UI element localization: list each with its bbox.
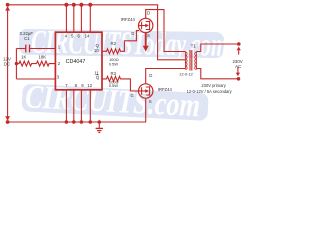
- pin Qbar overline: [96, 74, 98, 76]
- wire pin9 bottom: [80, 90, 82, 122]
- wire pin3: [16, 78, 55, 80]
- wire secondary bottom to terminal: [196, 69, 238, 79]
- svg-text:0.5W: 0.5W: [109, 83, 119, 88]
- node pin6 dot: [79, 3, 83, 7]
- node pin5 dot: [72, 3, 76, 7]
- node pin4 dot: [64, 3, 68, 7]
- node pin14 dot: [88, 3, 92, 7]
- svg-text:IRFZ44: IRFZ44: [121, 17, 136, 22]
- svg-text:3: 3: [57, 75, 60, 80]
- svg-text:230V primary: 230V primary: [201, 83, 226, 88]
- svg-text:18K: 18K: [38, 54, 46, 59]
- svg-text:T1: T1: [191, 44, 197, 49]
- ground symbol bars: [96, 127, 103, 129]
- watermark band bottom: [21, 79, 209, 125]
- svg-text:10: 10: [94, 48, 99, 53]
- wire pin8 bottom: [73, 90, 75, 122]
- svg-text:D: D: [147, 11, 150, 16]
- svg-text:0.22μF: 0.22μF: [20, 31, 34, 36]
- transistor Q2 IRFZ44 bottom circle: [139, 84, 153, 98]
- op chip CD4047 U1 body: [55, 32, 102, 90]
- svg-text:C1: C1: [24, 36, 30, 41]
- wire RC junction vertical: [15, 49, 17, 80]
- watermark band top: [19, 24, 229, 64]
- svg-text:12: 12: [87, 83, 92, 88]
- transistor Q2 drain wire to transformer bottom: [146, 69, 186, 84]
- svg-text:S: S: [147, 33, 150, 38]
- transistor Q1 drain wire to transformer top: [146, 10, 186, 52]
- capacitor C1 left wire: [16, 48, 25, 50]
- transformer T1 right winding: [195, 52, 197, 70]
- node 12V top dot: [6, 3, 10, 7]
- svg-text:Q: Q: [96, 75, 100, 80]
- svg-text:S: S: [149, 99, 152, 104]
- transistor Q1 source stub: [145, 33, 147, 47]
- arrow AC up: [238, 49, 240, 55]
- node AC bottom terminal dot: [237, 77, 241, 81]
- node pin12 rail dot: [89, 120, 93, 124]
- svg-text:DC: DC: [4, 61, 10, 66]
- node pin8 rail dot: [72, 120, 76, 124]
- svg-text:12-0-12V / 5A secondary: 12-0-12V / 5A secondary: [187, 89, 233, 94]
- svg-text:1K: 1K: [21, 54, 26, 59]
- resistor R2 wire and zigzag: [102, 31, 139, 54]
- svg-text:2: 2: [58, 61, 61, 66]
- node RC junction dot: [15, 62, 18, 65]
- transistor Q1 symbol: [139, 21, 150, 30]
- arrow 12V down: [5, 116, 10, 120]
- wire pin5 top: [73, 5, 75, 32]
- svg-text:14: 14: [85, 33, 90, 38]
- wire ground rail bottom and Q2 source: [8, 98, 146, 122]
- transistor Q2 symbol: [139, 86, 150, 95]
- arrow AC down head: [236, 73, 240, 77]
- resistor R3 wire and zigzag: [102, 76, 139, 91]
- transformer T1 core: [189, 50, 191, 71]
- capacitor C1 right wire to pin1: [30, 48, 56, 50]
- transformer T1 left winding: [185, 52, 187, 70]
- arrow 12V up: [5, 6, 10, 10]
- transistor Q1 symbol arrowhead: [145, 24, 149, 28]
- svg-text:CD4047: CD4047: [66, 59, 86, 65]
- transistor Q1 IRFZ44 top circle: [139, 18, 153, 32]
- node ground-left dot: [6, 120, 10, 124]
- wire pin6 top: [80, 5, 82, 32]
- svg-text:IRFZ44: IRFZ44: [158, 87, 173, 92]
- node ground dot: [98, 120, 102, 124]
- transistor Q1 source arrow head: [143, 46, 149, 52]
- svg-text:CIRCUITSToday.com: CIRCUITSToday.com: [31, 24, 229, 63]
- node pin7 rail dot: [65, 120, 69, 124]
- resistor R 1K zigzag: [16, 61, 36, 66]
- wire secondary top to terminal: [196, 44, 238, 52]
- wire pin4 top: [65, 5, 67, 32]
- svg-text:0.5W: 0.5W: [109, 62, 119, 67]
- svg-text:R2: R2: [111, 41, 117, 46]
- resistor R 18K zigzag: [37, 61, 56, 66]
- arrow AC down: [237, 67, 239, 74]
- wire pin7 bottom: [65, 90, 67, 122]
- wire +12V top rail and center-tap feed: [8, 5, 186, 60]
- transistor Q2 symbol arrowhead: [145, 89, 149, 93]
- svg-text:R3: R3: [111, 71, 117, 76]
- arrow AC up head: [237, 47, 241, 51]
- wire pin12 bottom: [89, 90, 91, 122]
- svg-text:12-0-12: 12-0-12: [179, 71, 194, 76]
- capacitor C1 plates: [25, 45, 27, 53]
- ground symbol stem: [98, 122, 100, 128]
- svg-text:D: D: [149, 73, 152, 78]
- svg-text:AC: AC: [235, 64, 241, 69]
- wire pin14 top: [89, 5, 91, 32]
- node pin9 rail dot: [80, 120, 84, 124]
- node AC top terminal dot: [237, 42, 241, 46]
- wire 12V left rail vertical: [7, 7, 9, 120]
